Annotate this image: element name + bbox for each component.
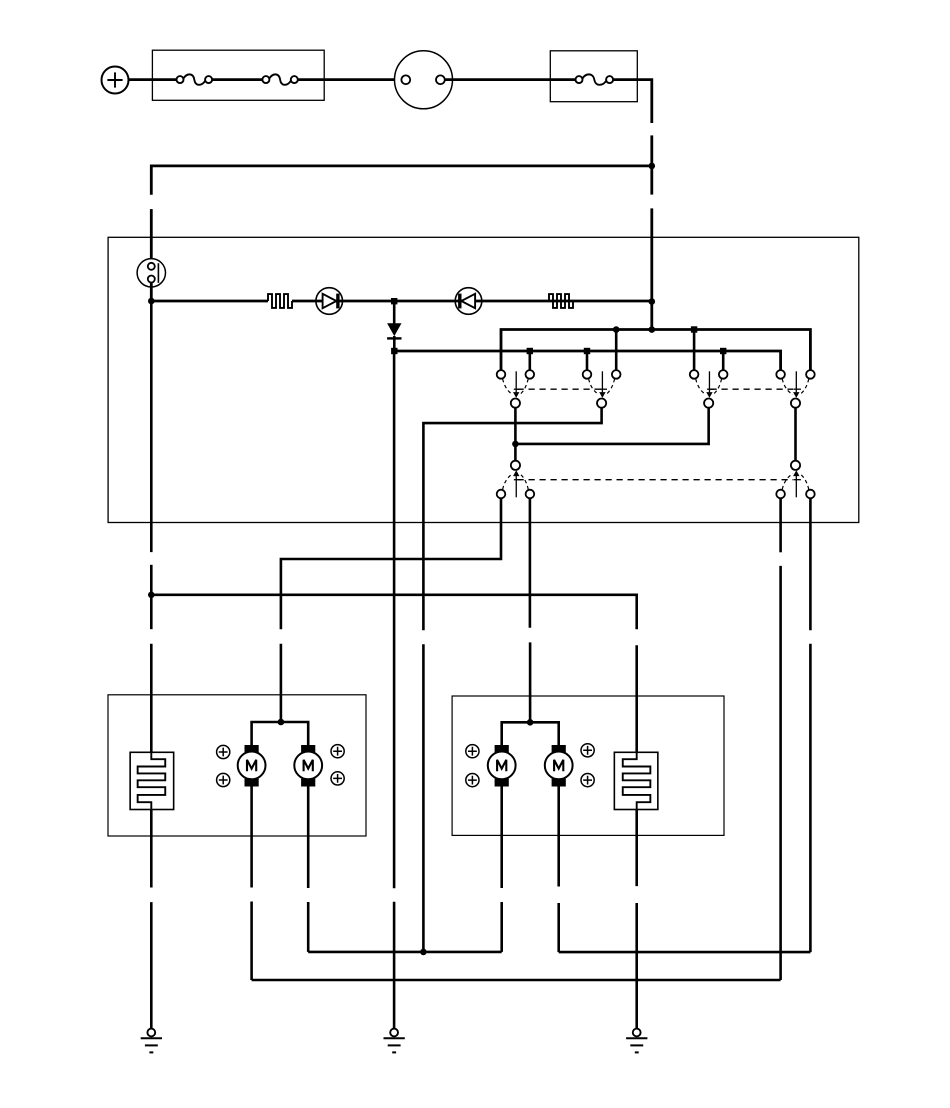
wire M3 down xyxy=(500,787,503,889)
wire SW5 left terminal to left lamp xyxy=(281,498,501,629)
stub SW2 right xyxy=(615,330,618,371)
junction node C xyxy=(391,298,397,304)
diode D1 (indicator) xyxy=(316,288,343,315)
wire node C to diode D3 xyxy=(393,303,396,324)
fuse F2 (headlight) xyxy=(262,74,297,84)
wire SW6 right terminal down xyxy=(809,498,812,630)
wire feed branch left, corner down xyxy=(151,166,652,195)
wire SW3 common tie xyxy=(515,408,708,444)
wire M2-M3 tie xyxy=(308,951,502,954)
wire left element to ground xyxy=(150,902,153,1029)
wire to node E xyxy=(150,565,153,595)
adjuster screw xyxy=(331,772,344,785)
wire to right lamp motors xyxy=(529,642,532,722)
wire SW2 common left and down xyxy=(423,408,601,631)
adjuster screw xyxy=(466,774,479,787)
motor M1 (left lamp) xyxy=(238,745,266,787)
motor M4 (right lamp) xyxy=(545,745,573,787)
dashed link SW3-SW4 xyxy=(711,388,794,390)
ground (right) xyxy=(626,1029,647,1053)
ground (left) xyxy=(141,1029,162,1053)
wire SW4 common down to lower contact xyxy=(794,408,797,461)
junction upper bus / feed xyxy=(649,326,656,333)
diode D3 xyxy=(387,323,401,338)
wire right element to ground xyxy=(635,903,638,1029)
right headlight assembly box xyxy=(452,696,724,835)
fuse box (main/headlight fuses) xyxy=(152,50,324,100)
adjuster screw xyxy=(331,745,344,758)
upper bus wire xyxy=(501,330,810,371)
stub SW3 left xyxy=(693,330,696,371)
right lamp element (solenoid) xyxy=(614,752,658,809)
adjuster screw xyxy=(217,773,230,786)
wire node D ground section xyxy=(393,902,396,1029)
retract contact SW5 xyxy=(497,461,535,499)
wire SW1 common down to lower contact xyxy=(514,408,517,461)
adjuster screw xyxy=(581,774,594,787)
retract contact SW6 xyxy=(776,461,814,499)
wire node C through LED D2, R2 to right feed xyxy=(394,300,652,303)
diode D2 (indicator) xyxy=(455,288,482,315)
resistor R2 xyxy=(549,294,573,308)
motor M2 (left lamp) xyxy=(294,745,322,787)
junction left motor feed xyxy=(278,719,285,726)
wire fuse to feed node, corner down xyxy=(613,80,652,123)
headlight control unit box xyxy=(108,237,859,522)
fuse F1 (main) xyxy=(177,74,213,84)
wire R1 through LED D1 to node C xyxy=(292,300,394,303)
wire diode D3 to bus node D xyxy=(393,336,396,349)
main (ignition) switch xyxy=(395,51,453,109)
dashed link SW5-SW6 xyxy=(518,479,794,481)
wire node B down inside control unit xyxy=(150,301,153,552)
wire SW6 left lower section xyxy=(779,566,782,980)
wire left lamp motor feeds xyxy=(252,722,309,745)
wire to left lamp motors xyxy=(280,644,283,722)
junction right feed on main line xyxy=(649,298,656,305)
junction SW1/SW3 common tie xyxy=(512,441,519,448)
wire SW2 common lower section xyxy=(422,644,425,952)
relay contact SW4 xyxy=(776,370,814,408)
junction upper bus / SW3 stub xyxy=(691,326,697,332)
wire right lamp motor feeds xyxy=(502,722,559,745)
dashed link SW1-SW2 xyxy=(518,388,601,390)
resistor R1 xyxy=(268,294,292,308)
stub SW2 left xyxy=(586,351,589,370)
wire SW6 right lower section xyxy=(809,644,812,952)
wire M4 lower section xyxy=(557,903,560,952)
junction node E xyxy=(148,592,155,599)
wire M1 lower section xyxy=(250,902,253,981)
wire right element down xyxy=(635,810,638,887)
wire SW5 right terminal down xyxy=(529,498,532,628)
junction upper bus / SW2 stub xyxy=(613,326,620,333)
wire connector to node B xyxy=(150,282,153,300)
junction feed node A xyxy=(649,163,656,170)
wire M1 to SW6 left xyxy=(252,979,781,982)
wire node D down to ground xyxy=(393,353,396,888)
motor M3 (right lamp) xyxy=(488,745,516,787)
wire feed vertical after connector break xyxy=(650,135,653,164)
relay contact SW2 xyxy=(583,370,621,408)
fuse box 2 xyxy=(550,51,637,102)
wire between fuses xyxy=(212,78,263,81)
wire fuse box to main switch xyxy=(298,78,401,81)
wire right feed into control unit xyxy=(650,208,653,329)
fuse F3 (headlight motor) xyxy=(576,74,614,84)
junction lower bus / SW1 stub xyxy=(527,348,533,354)
battery positive terminal xyxy=(102,67,129,94)
wire M1 down xyxy=(250,787,253,888)
junction lower bus / SW3 stub xyxy=(720,348,726,354)
ground (middle) xyxy=(384,1029,405,1053)
junction M2-M3 tie / SW2 common xyxy=(420,949,427,956)
wire to right lamp element xyxy=(635,645,638,752)
lower bus wire from node D xyxy=(394,351,780,370)
wire main switch to fuse box 2 xyxy=(445,78,576,81)
wire M4 to SW6 right xyxy=(559,951,811,954)
adjuster screw xyxy=(217,745,230,758)
wire left feed into control unit xyxy=(150,209,153,263)
wire SW6 left terminal down xyxy=(779,498,782,552)
adjuster screw xyxy=(466,745,479,758)
junction node B xyxy=(148,298,155,305)
wire to left lamp element xyxy=(150,644,153,753)
wire M2 down xyxy=(307,787,310,889)
wire node E to right lamp element xyxy=(151,595,636,630)
wire M2 lower section xyxy=(307,902,310,952)
wire battery to fuse box xyxy=(129,78,177,81)
wire node E down xyxy=(150,595,153,629)
left lamp element (solenoid) xyxy=(130,752,174,809)
wire node B to resistor R1 xyxy=(151,300,268,303)
wire M4 down xyxy=(557,787,560,887)
adjuster screw xyxy=(581,744,594,757)
junction right motor feed xyxy=(527,719,534,726)
wire M3 lower section xyxy=(500,902,503,952)
left headlight assembly box xyxy=(108,695,366,836)
stub SW3 right xyxy=(722,351,725,370)
wire left element down xyxy=(150,810,153,888)
relay contact SW1 xyxy=(497,370,534,408)
junction node D xyxy=(391,348,397,354)
relay contact SW3 xyxy=(690,370,728,408)
junction lower bus / SW2 stub xyxy=(584,348,590,354)
connector (bullet) inside control unit xyxy=(137,259,165,287)
stub SW1 right xyxy=(528,351,531,370)
wire feed down from node A xyxy=(650,166,653,195)
